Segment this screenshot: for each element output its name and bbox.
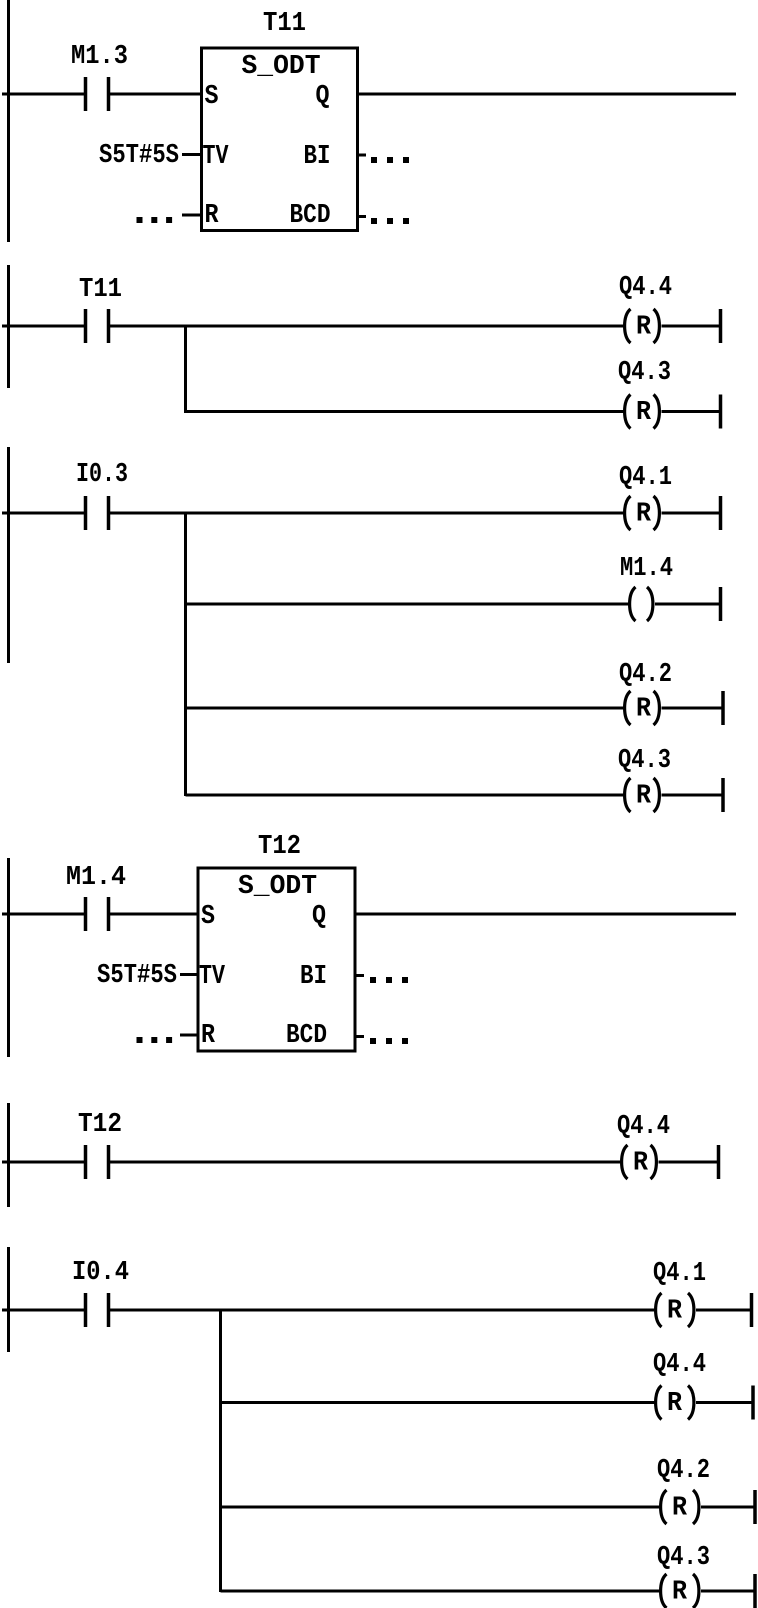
contact M1.3 <box>84 77 111 111</box>
svg-text:Q4.3: Q4.3 <box>618 746 671 776</box>
svg-text:BCD: BCD <box>286 1021 327 1051</box>
timer T11 box <box>202 48 358 231</box>
svg-text:BI: BI <box>304 142 331 172</box>
wire <box>108 913 199 916</box>
wire <box>108 1161 621 1164</box>
terminal bar <box>719 309 723 343</box>
coil Q4.4 reset <box>625 309 660 343</box>
terminal bar <box>721 691 725 725</box>
wire <box>662 794 724 797</box>
wire TV input tick <box>180 973 198 976</box>
wire <box>662 325 721 328</box>
svg-text:Q4.3: Q4.3 <box>657 1543 710 1573</box>
coil Q4.1 reset <box>656 1293 694 1327</box>
wire branch junction <box>184 326 187 413</box>
svg-text:M1.4: M1.4 <box>620 554 673 584</box>
wire branch rung <box>186 410 625 413</box>
svg-text:R: R <box>636 782 652 812</box>
left power rail network 3 <box>7 447 10 663</box>
wire <box>655 603 721 606</box>
wire branch rung <box>221 1590 661 1593</box>
contact I0.4 <box>84 1293 111 1327</box>
wire branch rung <box>186 707 625 710</box>
wire BI output tick <box>355 974 364 977</box>
svg-text:S_ODT: S_ODT <box>238 872 317 902</box>
contact T12 <box>84 1145 111 1179</box>
coil Q4.4 reset <box>656 1386 694 1420</box>
wire <box>2 93 85 96</box>
svg-text:T12: T12 <box>78 1110 122 1140</box>
wire <box>2 1161 85 1164</box>
svg-text:R: R <box>672 1494 688 1524</box>
wire Q output <box>355 913 736 916</box>
terminal bar <box>753 1574 757 1608</box>
svg-text:S5T#5S: S5T#5S <box>97 961 177 991</box>
svg-text:R: R <box>636 695 652 725</box>
wire <box>2 913 85 916</box>
left power rail network 4 <box>7 858 10 1057</box>
wire <box>108 512 624 515</box>
wire <box>2 512 85 515</box>
coil Q4.2 reset <box>661 1490 699 1524</box>
label ... BI output <box>370 977 376 983</box>
svg-text:R: R <box>672 1578 688 1608</box>
svg-text:I0.3: I0.3 <box>76 460 128 490</box>
svg-text:Q4.4: Q4.4 <box>619 273 672 303</box>
wire <box>662 410 721 413</box>
coil M1.4 output <box>630 587 653 621</box>
wire TV input tick <box>182 153 201 156</box>
svg-text:R: R <box>636 313 652 343</box>
svg-text:M1.3: M1.3 <box>71 42 128 72</box>
svg-text:S: S <box>201 902 215 932</box>
svg-text:R: R <box>636 500 652 530</box>
coil Q4.2 reset <box>625 691 660 725</box>
svg-text:M1.4: M1.4 <box>66 863 126 893</box>
wire <box>108 93 203 96</box>
wire <box>696 1309 752 1312</box>
wire <box>108 325 624 328</box>
svg-text:R: R <box>667 1389 683 1419</box>
svg-text:TV: TV <box>199 962 226 992</box>
terminal bar <box>750 1293 754 1327</box>
label ... BI output <box>371 157 377 163</box>
contact I0.3 <box>84 496 111 530</box>
coil Q4.3 reset <box>661 1574 699 1608</box>
label ... BCD output <box>371 218 377 224</box>
wire branch junction <box>219 1310 222 1592</box>
wire Q output <box>357 93 736 96</box>
label ... BCD output <box>370 1038 376 1044</box>
svg-text:Q4.2: Q4.2 <box>619 660 672 690</box>
svg-text:R: R <box>633 1149 649 1179</box>
wire <box>659 1161 719 1164</box>
svg-text:Q: Q <box>316 82 330 112</box>
svg-text:S5T#5S: S5T#5S <box>99 141 179 171</box>
left power rail network 2 <box>7 265 10 388</box>
wire BI output tick <box>357 154 366 157</box>
svg-text:S_ODT: S_ODT <box>242 52 321 82</box>
wire branch rung <box>186 603 630 606</box>
wire <box>2 1309 85 1312</box>
terminal bar <box>753 1490 757 1524</box>
wire branch rung <box>221 1506 661 1509</box>
svg-text:T11: T11 <box>263 9 306 39</box>
terminal bar <box>717 1145 721 1179</box>
svg-text:Q4.4: Q4.4 <box>653 1350 706 1380</box>
svg-text:Q4.1: Q4.1 <box>619 463 672 493</box>
wire <box>108 1309 655 1312</box>
wire R input tick <box>180 1034 198 1037</box>
coil Q4.3 reset <box>625 778 660 812</box>
svg-text:I0.4: I0.4 <box>72 1258 129 1288</box>
svg-text:S: S <box>205 82 219 112</box>
label ... R input <box>137 1037 143 1043</box>
svg-text:BCD: BCD <box>290 201 331 231</box>
svg-text:R: R <box>636 398 652 428</box>
terminal bar <box>721 778 725 812</box>
wire <box>701 1506 755 1509</box>
label ... R input <box>137 217 143 223</box>
svg-text:T12: T12 <box>258 832 301 862</box>
wire BCD output tick <box>355 1035 364 1038</box>
coil Q4.3 reset <box>625 395 660 429</box>
wire R input tick <box>182 214 201 217</box>
svg-text:Q4.2: Q4.2 <box>657 1456 710 1486</box>
left power rail network 5 <box>7 1103 10 1207</box>
left power rail network 1 <box>7 0 10 242</box>
coil Q4.1 reset <box>625 496 660 530</box>
left power rail network 6 <box>7 1247 10 1352</box>
terminal bar <box>751 1386 755 1420</box>
svg-text:Q4.4: Q4.4 <box>617 1112 670 1142</box>
wire <box>696 1401 753 1404</box>
svg-text:T11: T11 <box>79 275 122 305</box>
svg-text:TV: TV <box>203 142 230 172</box>
wire <box>662 707 724 710</box>
svg-text:R: R <box>667 1297 683 1327</box>
svg-text:Q4.3: Q4.3 <box>618 358 671 388</box>
wire <box>662 512 721 515</box>
wire branch rung <box>186 794 625 797</box>
terminal bar <box>719 395 723 429</box>
svg-text:Q4.1: Q4.1 <box>653 1259 706 1289</box>
wire branch junction <box>184 513 187 796</box>
wire <box>2 325 85 328</box>
svg-text:Q: Q <box>312 902 326 932</box>
contact T11 <box>84 309 111 343</box>
contact M1.4 <box>84 897 111 931</box>
timer T12 box <box>198 868 355 1051</box>
svg-text:R: R <box>201 1021 216 1051</box>
svg-text:R: R <box>205 201 220 231</box>
terminal bar <box>719 496 723 530</box>
wire <box>701 1590 755 1593</box>
svg-text:BI: BI <box>300 962 327 992</box>
terminal bar <box>719 587 723 621</box>
coil Q4.4 reset <box>622 1145 657 1179</box>
wire branch rung <box>221 1401 656 1404</box>
wire BCD output tick <box>357 215 366 218</box>
